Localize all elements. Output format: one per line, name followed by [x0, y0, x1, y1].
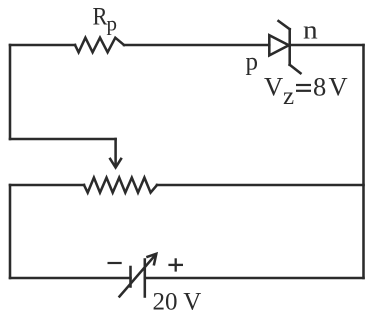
- svg-text:8: 8: [313, 72, 326, 102]
- zener diode D1 cathode bar: [288, 29, 291, 65]
- zener diode D1 triangle: [269, 35, 289, 55]
- svg-text:p: p: [107, 12, 118, 36]
- wire right vertical: [362, 45, 365, 278]
- wire bottom-right: [145, 277, 364, 280]
- battery V1 variability arrow shaft: [120, 255, 156, 297]
- svg-text:n: n: [303, 15, 318, 44]
- wire middle-right: [157, 184, 364, 187]
- potentiometer track zigzag: [84, 178, 157, 193]
- svg-text:z: z: [283, 83, 294, 110]
- zener diode D1 bottom tail: [290, 65, 301, 73]
- battery V1 variability arrow head: [146, 254, 156, 266]
- resistor R_p zigzag: [75, 38, 124, 53]
- potentiometer wiper arrow head: [110, 158, 122, 168]
- battery V1 short plate (-): [129, 267, 132, 287]
- svg-text:V: V: [329, 72, 348, 102]
- label plus: [168, 258, 183, 271]
- zener diode D1 top tail: [279, 21, 290, 29]
- svg-text:R: R: [93, 4, 108, 31]
- label minus: [108, 262, 122, 264]
- svg-text:p: p: [246, 49, 259, 76]
- wire middle-left: [10, 184, 84, 187]
- label Vz = 8 V: [264, 72, 348, 111]
- wire top-middle: [124, 44, 269, 47]
- battery V1 long plate (+): [144, 260, 147, 297]
- potentiometer wiper arrow shaft: [114, 139, 117, 165]
- wire bottom-left: [10, 277, 131, 280]
- svg-text:20 V: 20 V: [153, 289, 202, 313]
- wire left-top vertical: [9, 45, 12, 139]
- wire top-left horizontal: [10, 44, 75, 47]
- wire top-right: [290, 44, 364, 47]
- wire wiper horizontal: [10, 138, 116, 141]
- label R_p: [93, 4, 118, 36]
- svg-text:V: V: [264, 72, 283, 102]
- wire left-bottom vertical: [9, 185, 12, 278]
